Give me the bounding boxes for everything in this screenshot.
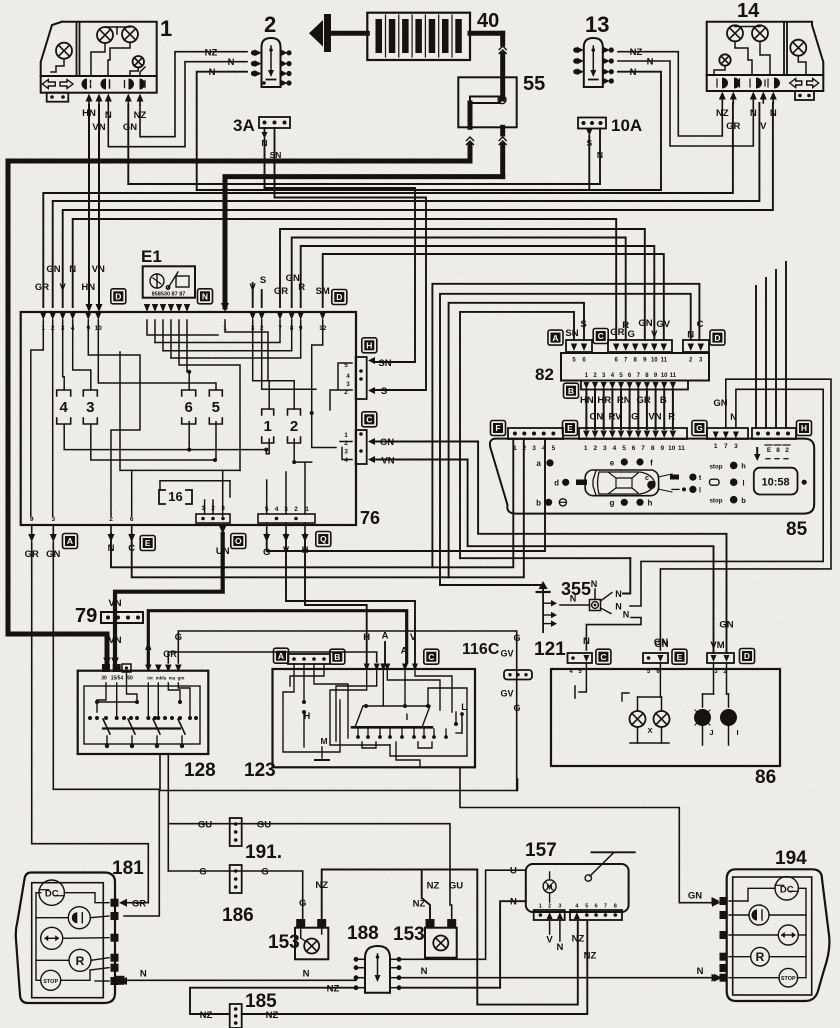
svg-text:HN: HN — [81, 282, 95, 293]
svg-text:B: B — [334, 652, 340, 662]
svg-text:g: g — [610, 499, 615, 508]
svg-text:B: B — [660, 395, 667, 406]
svg-text:gm: gm — [178, 676, 185, 681]
svg-text:116C: 116C — [462, 641, 500, 658]
svg-text:UN: UN — [216, 546, 230, 557]
svg-text:82: 82 — [535, 365, 554, 384]
svg-text:I: I — [736, 728, 738, 737]
svg-text:11: 11 — [670, 373, 677, 379]
svg-text:14: 14 — [737, 0, 760, 22]
svg-text:1: 1 — [584, 445, 588, 452]
svg-text:RV: RV — [608, 412, 622, 423]
svg-text:4: 4 — [275, 506, 279, 513]
svg-text:DC: DC — [780, 884, 794, 895]
svg-text:SN: SN — [378, 358, 391, 369]
svg-text:SN: SN — [270, 150, 282, 160]
svg-text:3: 3 — [51, 516, 55, 523]
svg-text:GN: GN — [688, 891, 702, 902]
svg-text:1: 1 — [201, 505, 205, 512]
svg-text:79: 79 — [75, 605, 97, 627]
svg-text:30: 30 — [101, 676, 107, 682]
svg-text:N: N — [202, 292, 208, 302]
svg-text:B: B — [568, 386, 574, 396]
svg-text:G: G — [199, 867, 206, 878]
svg-text:A: A — [552, 333, 558, 343]
svg-text:76: 76 — [360, 508, 380, 528]
svg-text:H: H — [366, 341, 372, 351]
svg-text:121: 121 — [534, 639, 566, 660]
svg-text:128: 128 — [184, 760, 216, 781]
svg-text:V: V — [546, 935, 553, 946]
svg-text:d: d — [554, 479, 559, 488]
svg-text:G: G — [513, 703, 520, 713]
svg-text:S: S — [586, 138, 592, 148]
svg-text:N: N — [623, 610, 630, 620]
svg-text:153: 153 — [268, 932, 300, 953]
svg-text:185: 185 — [245, 991, 277, 1012]
svg-text:188: 188 — [347, 923, 379, 944]
svg-text:10:58: 10:58 — [762, 476, 790, 488]
svg-text:STOP: STOP — [43, 979, 58, 985]
svg-text:NZ: NZ — [327, 984, 340, 995]
svg-text:R: R — [76, 954, 85, 968]
svg-text:GN: GN — [713, 398, 727, 409]
svg-text:181: 181 — [112, 858, 144, 879]
svg-text:2: 2 — [785, 447, 789, 454]
svg-text:6: 6 — [185, 399, 193, 416]
svg-text:6: 6 — [130, 516, 134, 523]
svg-text:8: 8 — [776, 447, 780, 454]
svg-text:C: C — [428, 652, 434, 662]
svg-text:DC: DC — [45, 889, 59, 900]
svg-text:H: H — [801, 423, 807, 433]
svg-text:G: G — [299, 898, 306, 909]
svg-text:A: A — [145, 642, 152, 653]
svg-text:NZ: NZ — [205, 48, 218, 59]
svg-text:J: J — [709, 728, 713, 737]
svg-text:VM: VM — [710, 640, 724, 651]
svg-text:N: N — [570, 594, 577, 604]
svg-text:l: l — [742, 478, 744, 487]
svg-text:13: 13 — [585, 12, 609, 37]
svg-text:X: X — [647, 726, 652, 735]
svg-text:8: 8 — [651, 445, 655, 452]
svg-text:CN: CN — [590, 412, 604, 423]
svg-text:1: 1 — [539, 904, 542, 910]
svg-text:C: C — [600, 652, 606, 662]
svg-text:GN: GN — [638, 318, 652, 329]
svg-text:h: h — [741, 462, 746, 471]
svg-text:NZ: NZ — [572, 934, 585, 945]
svg-text:c: c — [645, 475, 649, 482]
svg-text:V: V — [60, 282, 67, 293]
svg-text:858530 87 87: 858530 87 87 — [152, 292, 186, 298]
svg-text:Q: Q — [320, 534, 327, 544]
svg-text:2: 2 — [264, 12, 276, 37]
svg-text:STOP: STOP — [781, 976, 796, 982]
svg-text:D: D — [115, 292, 121, 302]
svg-text:7: 7 — [604, 904, 607, 910]
svg-text:55: 55 — [523, 73, 545, 95]
svg-text:V: V — [250, 282, 257, 293]
svg-text:186: 186 — [222, 905, 254, 926]
svg-text:3: 3 — [221, 505, 225, 512]
svg-text:V: V — [651, 329, 658, 340]
svg-text:153: 153 — [393, 924, 425, 945]
svg-text:5: 5 — [212, 399, 220, 416]
svg-text:11: 11 — [661, 358, 668, 364]
svg-text:N: N — [69, 264, 76, 275]
svg-text:N: N — [303, 969, 310, 980]
svg-text:E: E — [767, 447, 772, 454]
svg-text:S: S — [580, 319, 586, 330]
svg-text:4: 4 — [613, 445, 617, 452]
svg-text:N: N — [583, 636, 590, 647]
svg-text:N: N — [421, 966, 428, 977]
svg-text:G: G — [261, 867, 268, 878]
svg-text:10: 10 — [651, 358, 658, 364]
svg-text:N: N — [261, 138, 267, 148]
svg-text:N: N — [597, 150, 603, 160]
svg-text:N: N — [630, 67, 637, 78]
svg-text:N: N — [228, 57, 235, 68]
svg-text:C: C — [366, 415, 372, 425]
svg-text:10: 10 — [668, 445, 676, 452]
svg-text:G: G — [696, 423, 703, 433]
svg-text:O: O — [235, 536, 242, 546]
svg-text:VN: VN — [108, 635, 121, 646]
svg-text:G: G — [631, 412, 638, 423]
svg-text:VN: VN — [108, 598, 121, 609]
svg-text:R: R — [298, 282, 305, 293]
svg-text:7: 7 — [641, 445, 645, 452]
svg-text:E1: E1 — [141, 247, 162, 266]
svg-text:GN: GN — [654, 639, 668, 650]
svg-text:NZ: NZ — [584, 951, 597, 962]
svg-text:VN: VN — [648, 412, 661, 423]
svg-text:A: A — [382, 631, 389, 642]
svg-text:GV: GV — [500, 689, 513, 699]
svg-text:NZ: NZ — [266, 1010, 279, 1021]
svg-text:3: 3 — [86, 399, 94, 416]
svg-text:9: 9 — [660, 445, 664, 452]
svg-text:86: 86 — [755, 767, 776, 788]
svg-text:GN: GN — [123, 122, 137, 133]
svg-text:HN: HN — [580, 395, 594, 406]
svg-text:A: A — [401, 646, 408, 657]
svg-text:A: A — [67, 536, 73, 546]
svg-text:1: 1 — [160, 16, 172, 41]
svg-text:1: 1 — [305, 506, 309, 513]
svg-text:E: E — [145, 538, 151, 548]
svg-text:4: 4 — [60, 399, 69, 416]
svg-text:123: 123 — [244, 760, 276, 781]
svg-text:S: S — [381, 386, 387, 397]
svg-text:V: V — [760, 121, 767, 132]
svg-text:b: b — [741, 496, 746, 505]
svg-text:R: R — [668, 412, 675, 423]
svg-text:2: 2 — [344, 389, 348, 396]
svg-text:3: 3 — [558, 904, 561, 910]
svg-text:7: 7 — [724, 443, 728, 450]
svg-text:RN: RN — [617, 395, 631, 406]
svg-text:85: 85 — [786, 519, 808, 540]
svg-text:stop: stop — [709, 463, 722, 470]
svg-text:3: 3 — [532, 445, 536, 452]
svg-text:N: N — [140, 969, 147, 980]
svg-text:ma: ma — [169, 676, 176, 681]
svg-text:L: L — [461, 702, 467, 712]
svg-text:GU: GU — [257, 820, 271, 831]
svg-text:VN: VN — [92, 264, 105, 275]
svg-text:2: 2 — [344, 440, 348, 447]
svg-text:NZ: NZ — [630, 47, 643, 58]
svg-text:6: 6 — [632, 445, 636, 452]
svg-text:NZ: NZ — [200, 1010, 213, 1021]
svg-text:a: a — [536, 459, 541, 468]
svg-text:5: 5 — [344, 362, 348, 369]
svg-text:15/54: 15/54 — [111, 676, 124, 682]
svg-text:2: 2 — [211, 505, 215, 512]
svg-text:R: R — [756, 950, 765, 964]
svg-text:H: H — [304, 711, 311, 721]
svg-text:9: 9 — [30, 516, 34, 523]
svg-text:GV: GV — [656, 319, 670, 330]
svg-text:6: 6 — [595, 904, 598, 910]
svg-text:HR: HR — [597, 395, 611, 406]
svg-text:GV: GV — [500, 649, 513, 659]
svg-text:D: D — [744, 651, 750, 661]
svg-text:NZ: NZ — [315, 880, 328, 891]
svg-text:2: 2 — [290, 418, 298, 435]
svg-text:11: 11 — [678, 445, 685, 452]
svg-text:SN: SN — [565, 328, 578, 339]
svg-text:H: H — [363, 632, 370, 643]
svg-text:G: G — [628, 329, 635, 340]
svg-text:10A: 10A — [611, 116, 642, 135]
svg-text:mkfa: mkfa — [156, 676, 167, 681]
svg-text:5: 5 — [622, 445, 626, 452]
svg-text:4: 4 — [344, 457, 348, 464]
svg-text:2: 2 — [294, 506, 298, 513]
svg-text:C: C — [697, 319, 704, 330]
svg-text:N: N — [647, 57, 654, 68]
svg-text:N: N — [556, 942, 563, 953]
svg-text:GR: GR — [35, 282, 49, 293]
svg-text:Int: Int — [147, 676, 153, 681]
svg-text:157: 157 — [525, 840, 557, 861]
svg-text:GR: GR — [132, 899, 146, 910]
svg-text:b: b — [536, 499, 541, 508]
svg-text:2: 2 — [548, 904, 551, 910]
svg-text:16: 16 — [168, 489, 182, 504]
svg-text:l: l — [699, 488, 701, 495]
svg-text:5: 5 — [585, 904, 588, 910]
svg-text:M: M — [320, 736, 327, 746]
svg-text:G: G — [175, 632, 182, 643]
svg-text:3: 3 — [284, 506, 288, 513]
svg-text:D: D — [714, 333, 720, 343]
svg-text:h: h — [648, 499, 653, 508]
svg-text:5: 5 — [552, 445, 556, 452]
svg-text:1: 1 — [714, 443, 718, 450]
svg-text:N: N — [615, 602, 622, 612]
svg-text:NZ: NZ — [413, 899, 426, 910]
svg-text:N: N — [615, 589, 622, 599]
svg-text:50: 50 — [127, 676, 133, 682]
svg-text:GR: GR — [274, 286, 288, 297]
svg-text:N: N — [697, 966, 704, 977]
svg-text:3: 3 — [344, 449, 348, 456]
svg-text:SM: SM — [316, 286, 330, 297]
svg-text:N: N — [591, 579, 598, 589]
svg-text:GU: GU — [449, 881, 463, 892]
svg-text:G: G — [513, 633, 520, 643]
svg-text:NZ: NZ — [427, 881, 440, 892]
svg-text:3A: 3A — [233, 116, 255, 135]
svg-text:GR: GR — [163, 649, 177, 659]
svg-text:GR: GR — [636, 395, 650, 406]
svg-text:E: E — [677, 652, 683, 662]
svg-text:GN: GN — [380, 437, 394, 448]
svg-text:1: 1 — [344, 432, 348, 439]
svg-text:C: C — [598, 331, 604, 341]
svg-text:2: 2 — [109, 516, 113, 523]
svg-text:GU: GU — [198, 820, 212, 831]
svg-text:I: I — [406, 712, 409, 723]
svg-text:2: 2 — [593, 445, 597, 452]
svg-text:S: S — [260, 275, 266, 286]
svg-text:D: D — [336, 292, 342, 302]
svg-text:A: A — [278, 651, 284, 661]
svg-text:3: 3 — [734, 443, 738, 450]
svg-text:10: 10 — [661, 373, 668, 379]
svg-text:5: 5 — [265, 506, 269, 513]
svg-text:N: N — [687, 330, 694, 341]
svg-text:E: E — [567, 423, 573, 433]
svg-text:stop: stop — [709, 498, 722, 505]
svg-text:40: 40 — [477, 10, 499, 32]
svg-text:V: V — [410, 632, 417, 643]
svg-text:VN: VN — [381, 456, 394, 467]
svg-text:8: 8 — [614, 904, 617, 910]
svg-text:f: f — [650, 459, 653, 468]
svg-text:F: F — [495, 423, 500, 433]
svg-text:191.: 191. — [245, 842, 282, 863]
svg-text:e: e — [610, 459, 615, 468]
svg-text:1: 1 — [264, 418, 272, 435]
svg-text:3: 3 — [603, 445, 607, 452]
svg-text:GN: GN — [46, 264, 60, 275]
svg-text:194: 194 — [775, 848, 807, 869]
